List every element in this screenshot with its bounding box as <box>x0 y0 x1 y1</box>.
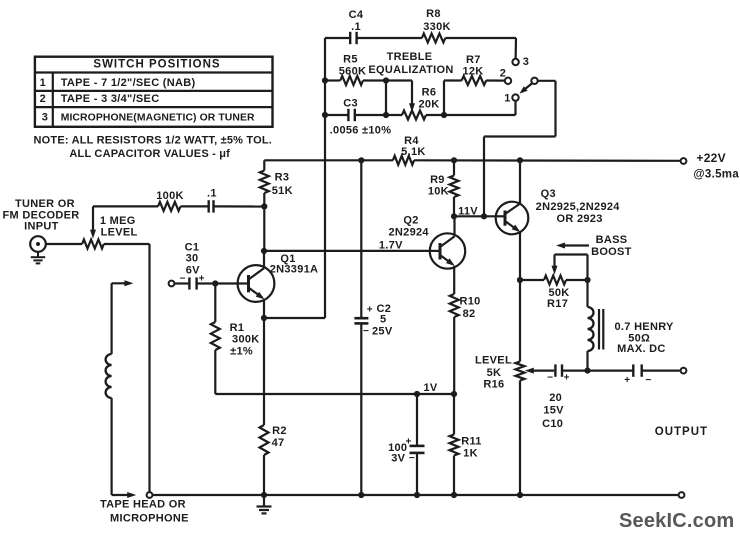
svg-text:5K: 5K <box>487 367 502 379</box>
resistor R7 <box>462 54 487 85</box>
resistor R3 <box>260 160 293 206</box>
svg-text:R17: R17 <box>547 298 568 310</box>
R17 wiper <box>552 255 588 281</box>
resistor R9 <box>428 160 459 216</box>
switch contact 1 <box>504 92 518 104</box>
bass boost annotation arrow <box>556 234 632 258</box>
wire R6 wiper feed <box>386 81 412 108</box>
1 MEG wiper <box>90 206 96 238</box>
inductor 0.7 henry <box>588 280 675 371</box>
wire emitter feedback link <box>264 317 325 319</box>
table header SWITCH POSITIONS <box>93 59 220 71</box>
terminal ground output <box>679 492 685 498</box>
svg-text:2: 2 <box>500 68 506 80</box>
resistor R8 <box>422 8 451 42</box>
svg-text:1: 1 <box>504 92 510 104</box>
label +22V <box>693 151 739 180</box>
wire bottom ground line <box>152 494 678 496</box>
wire C2 to ground <box>360 323 362 495</box>
svg-text:TAPE - 3 3/4"/SEC: TAPE - 3 3/4"/SEC <box>61 93 160 105</box>
svg-text:.1: .1 <box>351 21 361 33</box>
svg-text:82: 82 <box>463 308 476 320</box>
note line 1 <box>34 134 273 146</box>
svg-text:−: − <box>645 375 651 386</box>
svg-text:LEVEL: LEVEL <box>475 354 512 366</box>
capacitor .1 input <box>207 187 217 212</box>
table row 1 <box>40 77 196 89</box>
wire 1V line right <box>417 393 454 395</box>
svg-text:R3: R3 <box>275 172 290 184</box>
label 11V <box>458 206 478 218</box>
svg-text:−: − <box>363 326 369 337</box>
wire C4 to R8 <box>357 37 422 39</box>
svg-text:TUNER OR: TUNER OR <box>15 198 75 210</box>
svg-text:−: − <box>180 274 186 285</box>
wire Q1 collector <box>263 251 265 268</box>
wire R3 bottom to collector node <box>263 207 265 251</box>
wire to output terminal <box>642 370 681 372</box>
wire Q3 collector <box>519 160 521 203</box>
switch positions table frame <box>35 57 273 127</box>
output capacitor <box>624 364 651 386</box>
svg-text:0.7 HENRY: 0.7 HENRY <box>615 321 675 333</box>
svg-text:TREBLE: TREBLE <box>387 51 433 63</box>
svg-text:C4: C4 <box>349 9 364 21</box>
potentiometer 1 MEG LEVEL <box>82 215 137 249</box>
svg-text:OUTPUT: OUTPUT <box>655 426 708 438</box>
svg-text:20K: 20K <box>418 98 439 110</box>
terminal +22V <box>681 158 687 164</box>
svg-text:25V: 25V <box>372 326 393 338</box>
wire C3 line lead <box>325 114 348 116</box>
wire Q2 emitter <box>453 266 455 294</box>
wire pot to down corner <box>104 244 150 492</box>
svg-text:10K: 10K <box>428 186 449 198</box>
wire Q3 emitter to R16 <box>519 280 521 362</box>
tape head coil <box>106 283 112 495</box>
label treble equalization <box>368 51 453 76</box>
wire Q1 emitter <box>263 299 265 318</box>
svg-text:OR 2923: OR 2923 <box>557 213 603 225</box>
svg-text:R1: R1 <box>230 322 245 334</box>
svg-text:5.1K: 5.1K <box>401 146 425 158</box>
tape head top arrow <box>112 280 134 286</box>
svg-text:Q2: Q2 <box>403 214 418 226</box>
capacitor C2 <box>354 303 392 338</box>
svg-text:R6: R6 <box>422 86 437 98</box>
node R5 right <box>383 77 389 83</box>
svg-text:SWITCH POSITIONS: SWITCH POSITIONS <box>93 59 220 71</box>
node R3 bottom <box>261 203 267 209</box>
node R5 left <box>322 77 328 83</box>
resistor R4 <box>393 135 426 165</box>
svg-text:2N3391A: 2N3391A <box>270 264 319 276</box>
node Q1 base <box>212 280 218 286</box>
node Q1 emitter <box>261 315 267 321</box>
svg-text:NOTE: ALL RESISTORS 1/2 WATT,: NOTE: ALL RESISTORS 1/2 WATT, ±5% TOL. <box>34 134 273 146</box>
label tuner input <box>3 198 80 233</box>
capacitor C10 <box>542 364 569 430</box>
svg-text:±1%: ±1% <box>230 345 253 357</box>
svg-text:BOOST: BOOST <box>591 246 632 258</box>
transistor Q2 <box>379 214 465 268</box>
svg-text:R2: R2 <box>272 425 287 437</box>
svg-text:6V: 6V <box>186 264 200 276</box>
svg-text:−: − <box>409 453 415 464</box>
svg-text:+: + <box>564 373 570 384</box>
wire +22V rail <box>264 159 680 162</box>
svg-text:51K: 51K <box>272 185 293 197</box>
transistor Q1 <box>238 253 319 302</box>
svg-text:R9: R9 <box>430 174 445 186</box>
wire junction link vertical <box>385 81 387 116</box>
label OUTPUT <box>655 426 708 438</box>
svg-text:2N2924: 2N2924 <box>389 227 430 239</box>
potentiometer R17 <box>544 276 570 310</box>
switch contact 2 <box>500 68 511 84</box>
wire cap to R3 node <box>214 205 265 207</box>
node C3 right <box>383 112 389 118</box>
svg-text:EQUALIZATION: EQUALIZATION <box>368 64 453 76</box>
node R10 R11 junction <box>451 391 457 397</box>
node R11 ground <box>451 492 457 498</box>
svg-text:12K: 12K <box>462 65 483 77</box>
svg-text:TAPE - 7 1/2"/SEC (NAB): TAPE - 7 1/2"/SEC (NAB) <box>61 77 196 89</box>
svg-text:MICROPHONE(MAGNETIC) OR TUNER: MICROPHONE(MAGNETIC) OR TUNER <box>61 113 255 124</box>
svg-text:FM DECODER: FM DECODER <box>3 209 80 221</box>
resistor R2 <box>260 425 287 455</box>
wire C2 column <box>360 160 362 318</box>
svg-text:3: 3 <box>42 112 48 124</box>
svg-text:TAPE HEAD OR: TAPE HEAD OR <box>100 499 186 511</box>
capacitor C1 <box>180 242 205 290</box>
wire node to contact 1 <box>444 101 516 115</box>
svg-text:ALL CAPACITOR VALUES - μf: ALL CAPACITOR VALUES - μf <box>69 148 230 160</box>
svg-text:2: 2 <box>40 93 46 105</box>
wire input attenuator <box>93 205 158 207</box>
svg-text:2N2925,2N2924: 2N2925,2N2924 <box>536 201 621 213</box>
watermark SeekIC.com <box>619 510 734 532</box>
resistor R5 <box>339 53 367 85</box>
resistor R11 <box>450 394 482 495</box>
wire R5 line lead <box>325 79 340 81</box>
label tape head <box>100 499 189 525</box>
wire R17 left lead <box>520 279 544 281</box>
svg-text:C3: C3 <box>343 98 358 110</box>
svg-text:3: 3 <box>523 56 529 68</box>
potentiometer R6 <box>402 86 440 119</box>
wire R7 left link <box>444 81 462 116</box>
svg-text:R10: R10 <box>459 295 480 307</box>
input jack <box>30 236 46 252</box>
svg-text:−: − <box>547 373 553 384</box>
node C2 ground <box>358 492 364 498</box>
svg-text:.1: .1 <box>207 187 217 199</box>
svg-text:20: 20 <box>549 392 562 404</box>
svg-text:1V: 1V <box>423 382 437 394</box>
capacitor 100uF <box>388 394 424 495</box>
wire Q2 collector <box>453 216 455 236</box>
wire node to output cap <box>588 370 634 372</box>
node switch line join <box>481 213 487 219</box>
svg-text:MAX. DC: MAX. DC <box>617 343 666 355</box>
wire jack to pot <box>46 243 82 245</box>
svg-text:1.7V: 1.7V <box>379 239 403 251</box>
switch arm <box>520 83 533 94</box>
svg-text:5: 5 <box>380 313 386 325</box>
wire emitter down <box>263 318 265 425</box>
tape head bottom arrow <box>112 492 137 498</box>
svg-text:R8: R8 <box>426 8 441 20</box>
wire Q1 collector to Q2 base <box>264 250 430 252</box>
resistor R1 <box>211 284 417 395</box>
switch pivot <box>531 78 537 84</box>
node C3 left <box>322 112 328 118</box>
wire C1 to base node <box>197 282 216 284</box>
wire R16 to ground <box>519 381 521 496</box>
ground symbol main <box>257 495 272 513</box>
wire left column x=325 <box>324 38 326 318</box>
svg-text:SeekIC.com: SeekIC.com <box>619 510 734 532</box>
table row 3 <box>42 112 255 124</box>
svg-text:+: + <box>624 375 630 386</box>
svg-text:560K: 560K <box>339 65 367 77</box>
note line 2 <box>69 148 230 160</box>
transistor Q3 <box>496 188 621 234</box>
label 1V <box>423 382 437 394</box>
node R17 right <box>584 277 590 283</box>
terminal C1 input <box>169 281 175 287</box>
capacitor C3 <box>330 98 392 137</box>
svg-text:C10: C10 <box>542 418 563 430</box>
wire Q3 emitter <box>519 232 521 280</box>
resistor 100K <box>156 190 184 211</box>
switch contact 3 <box>512 56 529 68</box>
svg-text:Q3: Q3 <box>541 188 556 200</box>
node R6 right <box>441 112 447 118</box>
svg-text:1K: 1K <box>463 448 478 460</box>
node R16 ground <box>517 492 523 498</box>
wire base lead Q1 <box>215 282 238 284</box>
terminal ground input <box>147 492 153 498</box>
node 100uF ground <box>414 492 420 498</box>
table row 2 <box>40 93 160 105</box>
svg-text:BASS: BASS <box>596 234 628 246</box>
R16 wiper <box>525 368 554 374</box>
svg-text:.0056 ±10%: .0056 ±10% <box>330 124 392 136</box>
svg-text:R16: R16 <box>483 379 504 391</box>
svg-text:330K: 330K <box>423 21 451 33</box>
node Q3 emitter <box>517 277 523 283</box>
node R9 top <box>451 157 457 163</box>
svg-text:15V: 15V <box>543 405 564 417</box>
svg-text:+22V: +22V <box>696 151 726 165</box>
wire R10 to 1V node <box>453 317 455 394</box>
wire 11V to Q3 base <box>454 215 496 217</box>
ground below jack <box>31 252 45 264</box>
node 11V <box>451 213 457 219</box>
wire R2 to ground <box>263 455 265 495</box>
svg-text:100K: 100K <box>156 190 184 202</box>
wire switch common <box>484 81 556 217</box>
wire R17 right lead <box>566 279 588 281</box>
node R2 ground <box>261 492 267 498</box>
svg-text:R7: R7 <box>466 54 481 66</box>
wire R5 to junction <box>363 79 386 81</box>
svg-text:R11: R11 <box>461 436 481 448</box>
R6 wiper arrow <box>409 103 415 112</box>
svg-text:47: 47 <box>272 437 285 449</box>
potentiometer R16 <box>475 354 524 390</box>
svg-text:LEVEL: LEVEL <box>101 227 138 239</box>
wire R8 to contact 3 <box>445 38 516 59</box>
wire R7 to contact 2 <box>486 79 505 81</box>
node inductor bottom <box>584 368 590 374</box>
svg-text:@3.5ma: @3.5ma <box>693 168 739 180</box>
svg-text:300K: 300K <box>232 334 260 346</box>
wire top branch left segment <box>325 37 350 39</box>
svg-text:1 MEG: 1 MEG <box>100 215 136 227</box>
node Q3 collector rail <box>517 157 523 163</box>
svg-text:R5: R5 <box>343 53 358 65</box>
svg-text:INPUT: INPUT <box>24 221 59 233</box>
wire terminal to C1 <box>174 282 189 284</box>
node Q1 collector <box>261 248 267 254</box>
svg-text:1: 1 <box>40 77 46 89</box>
wire C3 to R6 <box>355 114 402 116</box>
svg-text:MICROPHONE: MICROPHONE <box>110 513 189 525</box>
terminal output <box>681 368 687 374</box>
svg-text:30: 30 <box>186 252 199 264</box>
node 100uF top <box>414 391 420 397</box>
node C2 top <box>358 157 364 163</box>
wire C10 to node <box>562 370 588 372</box>
capacitor C4 <box>349 9 364 44</box>
svg-text:+: + <box>367 305 373 316</box>
wire 100K to cap <box>181 205 209 207</box>
wire R6 to corner <box>426 114 444 116</box>
resistor R10 <box>450 294 481 320</box>
svg-text:3V: 3V <box>391 452 405 464</box>
